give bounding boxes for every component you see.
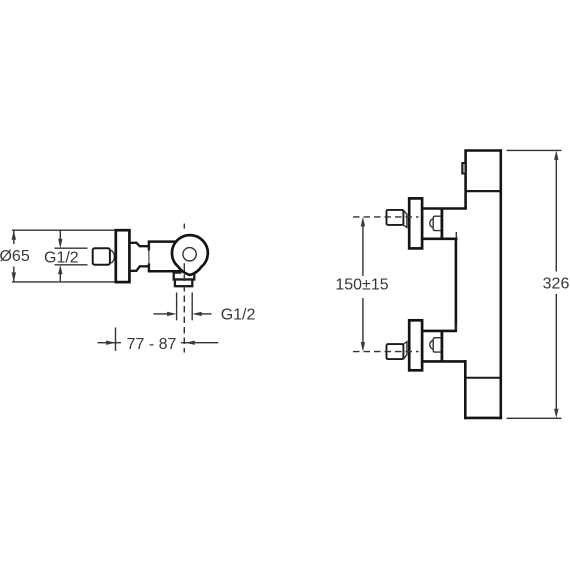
326 extension line top <box>507 149 562 151</box>
outlet upper block <box>174 273 195 280</box>
lower body left edge <box>464 360 467 419</box>
extension line top (flange diameter, upper) <box>12 229 116 231</box>
top connector bottom edge <box>423 238 458 241</box>
top wall flange (front view) <box>409 198 422 248</box>
dimension G1/2 inlet arrow up <box>59 274 61 282</box>
dimension 150±15 arrow up <box>361 217 365 227</box>
dimension 150±15 line segments <box>362 226 364 276</box>
bottom cap divider line <box>465 377 501 379</box>
top stub chamfer <box>403 210 407 228</box>
svg-text:150±15: 150±15 <box>335 277 388 294</box>
boss edge thin segment bottom <box>455 325 457 332</box>
thermostat head circle with outlet teardrop tail <box>172 235 208 275</box>
body face thin edge <box>148 249 150 265</box>
column left edge <box>455 238 458 331</box>
bottom connector top edge <box>423 330 458 333</box>
body top edge <box>148 240 177 243</box>
boss edge thin segment top <box>455 232 457 240</box>
threaded inlet stub (side view) <box>93 248 110 265</box>
top union nut edge <box>440 209 443 239</box>
outlet G1/2 extension line right <box>191 293 193 321</box>
dimension Ø65 arrow up <box>12 230 16 240</box>
dimension 326 arrow down <box>554 409 558 419</box>
outlet centerline segment inside circle <box>183 263 185 271</box>
svg-text:G1/2: G1/2 <box>44 249 79 266</box>
collar and neck upper profile <box>129 243 149 246</box>
collar and neck lower profile <box>129 266 149 271</box>
dimension G1/2 inlet arrow down <box>59 230 61 239</box>
body face thick edge upper <box>148 241 150 251</box>
svg-text:Ø65: Ø65 <box>0 248 30 265</box>
bottom connector bottom edge <box>423 360 467 363</box>
bottom wall flange (front view) <box>409 320 422 370</box>
326 extension line bottom <box>507 417 562 419</box>
outlet G1/2 dimension left arrow <box>154 313 169 315</box>
wall plane extension line <box>115 328 117 352</box>
top inlet stub <box>387 210 404 225</box>
outlet centerline dash above circle <box>183 224 185 229</box>
top union nut profile <box>433 216 441 230</box>
top cap outline <box>466 151 501 209</box>
svg-text:326: 326 <box>543 275 570 292</box>
outlet lower block <box>175 280 192 287</box>
wall flange (side view) <box>116 230 130 282</box>
bottom stub chamfer <box>403 342 407 360</box>
body face thick edge lower <box>148 264 150 273</box>
body right edge <box>499 149 502 419</box>
body bottom edge <box>148 270 181 273</box>
dimension 77-87 right arrow <box>181 342 218 344</box>
dimension G1/2 inlet upper tick line <box>55 247 88 249</box>
outlet centerline dashed <box>183 275 185 353</box>
body bottom edge <box>464 417 502 420</box>
temperature button on cap <box>462 163 465 174</box>
dimension 150±15 arrow down <box>361 342 365 352</box>
inner knob circle <box>183 248 196 261</box>
extension line bottom (flange diameter, lower) <box>12 281 116 283</box>
outlet G1/2 dimension right arrow <box>192 312 202 316</box>
dimension Ø65 arrow down <box>12 272 16 282</box>
outlet G1/2 extension line left <box>176 293 178 321</box>
bottom union nut profile <box>433 338 441 352</box>
stub tip bulge <box>110 250 114 263</box>
top inlet dashed centerline <box>353 216 419 218</box>
top cap divider line <box>465 190 501 192</box>
bottom union nut edge <box>440 331 443 362</box>
dimension 326 line segments <box>555 160 557 272</box>
top connector top edge <box>423 207 467 210</box>
dimension 77-87 left arrow <box>98 342 122 344</box>
dimension G1/2 inlet lower tick line <box>55 264 88 266</box>
bottom inlet dashed centerline <box>353 351 419 353</box>
bottom inlet stub <box>387 344 404 359</box>
dimension Ø65 line segments <box>13 230 15 244</box>
svg-text:G1/2: G1/2 <box>221 307 256 324</box>
dimension 326 arrow up <box>554 150 558 160</box>
svg-text:77 - 87: 77 - 87 <box>127 336 177 353</box>
